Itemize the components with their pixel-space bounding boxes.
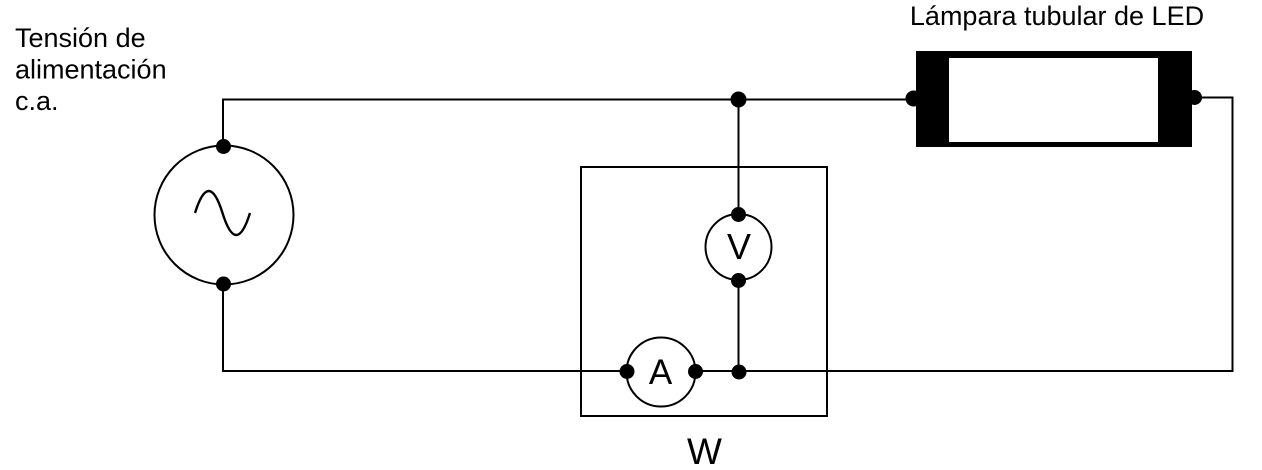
svg-text:Lámpara tubular de LED: Lámpara tubular de LED [910,1,1204,31]
wire: bottom horizontal left of ammeter [222,370,627,372]
node: bottom junction [732,365,747,380]
wire: right vertical [1232,98,1234,372]
svg-text:alimentación: alimentación [15,55,167,85]
node: lamp left terminal [906,91,922,107]
node: AC source top terminal [216,139,231,154]
svg-text:V: V [727,226,751,267]
ac source sine wave [195,191,250,235]
wire: top-left vertical down to AC source [222,100,224,148]
svg-text:A: A [649,353,673,392]
svg-text:Tensión de: Tensión de [15,23,146,53]
wire: voltmeter down to bottom junction [738,281,740,371]
wire: lamp right stub [1194,97,1234,99]
ac source G1 [155,146,294,285]
wire: junction down to voltmeter [738,100,740,215]
node: top junction [731,92,747,108]
voltmeter V [706,214,772,280]
ammeter A [627,338,696,407]
svg-text:c.a.: c.a. [15,86,59,116]
node: lamp right terminal [1187,90,1202,105]
svg-text:W: W [687,431,722,470]
wire: bottom-left vertical from AC source [222,284,224,372]
node: voltmeter bottom terminal [731,273,746,288]
lamp: LED tube inner white [949,58,1158,142]
wire: top horizontal from AC source to lamp [222,99,916,101]
lamp: LED tube body [916,51,1192,147]
wire: bottom horizontal right of ammeter to right edge [695,370,1234,372]
node: ammeter left terminal [620,364,635,379]
node: ammeter right terminal [688,364,703,379]
node: voltmeter top terminal [731,207,746,222]
node: AC source bottom terminal [216,277,231,292]
wattmeter W box [581,167,827,416]
